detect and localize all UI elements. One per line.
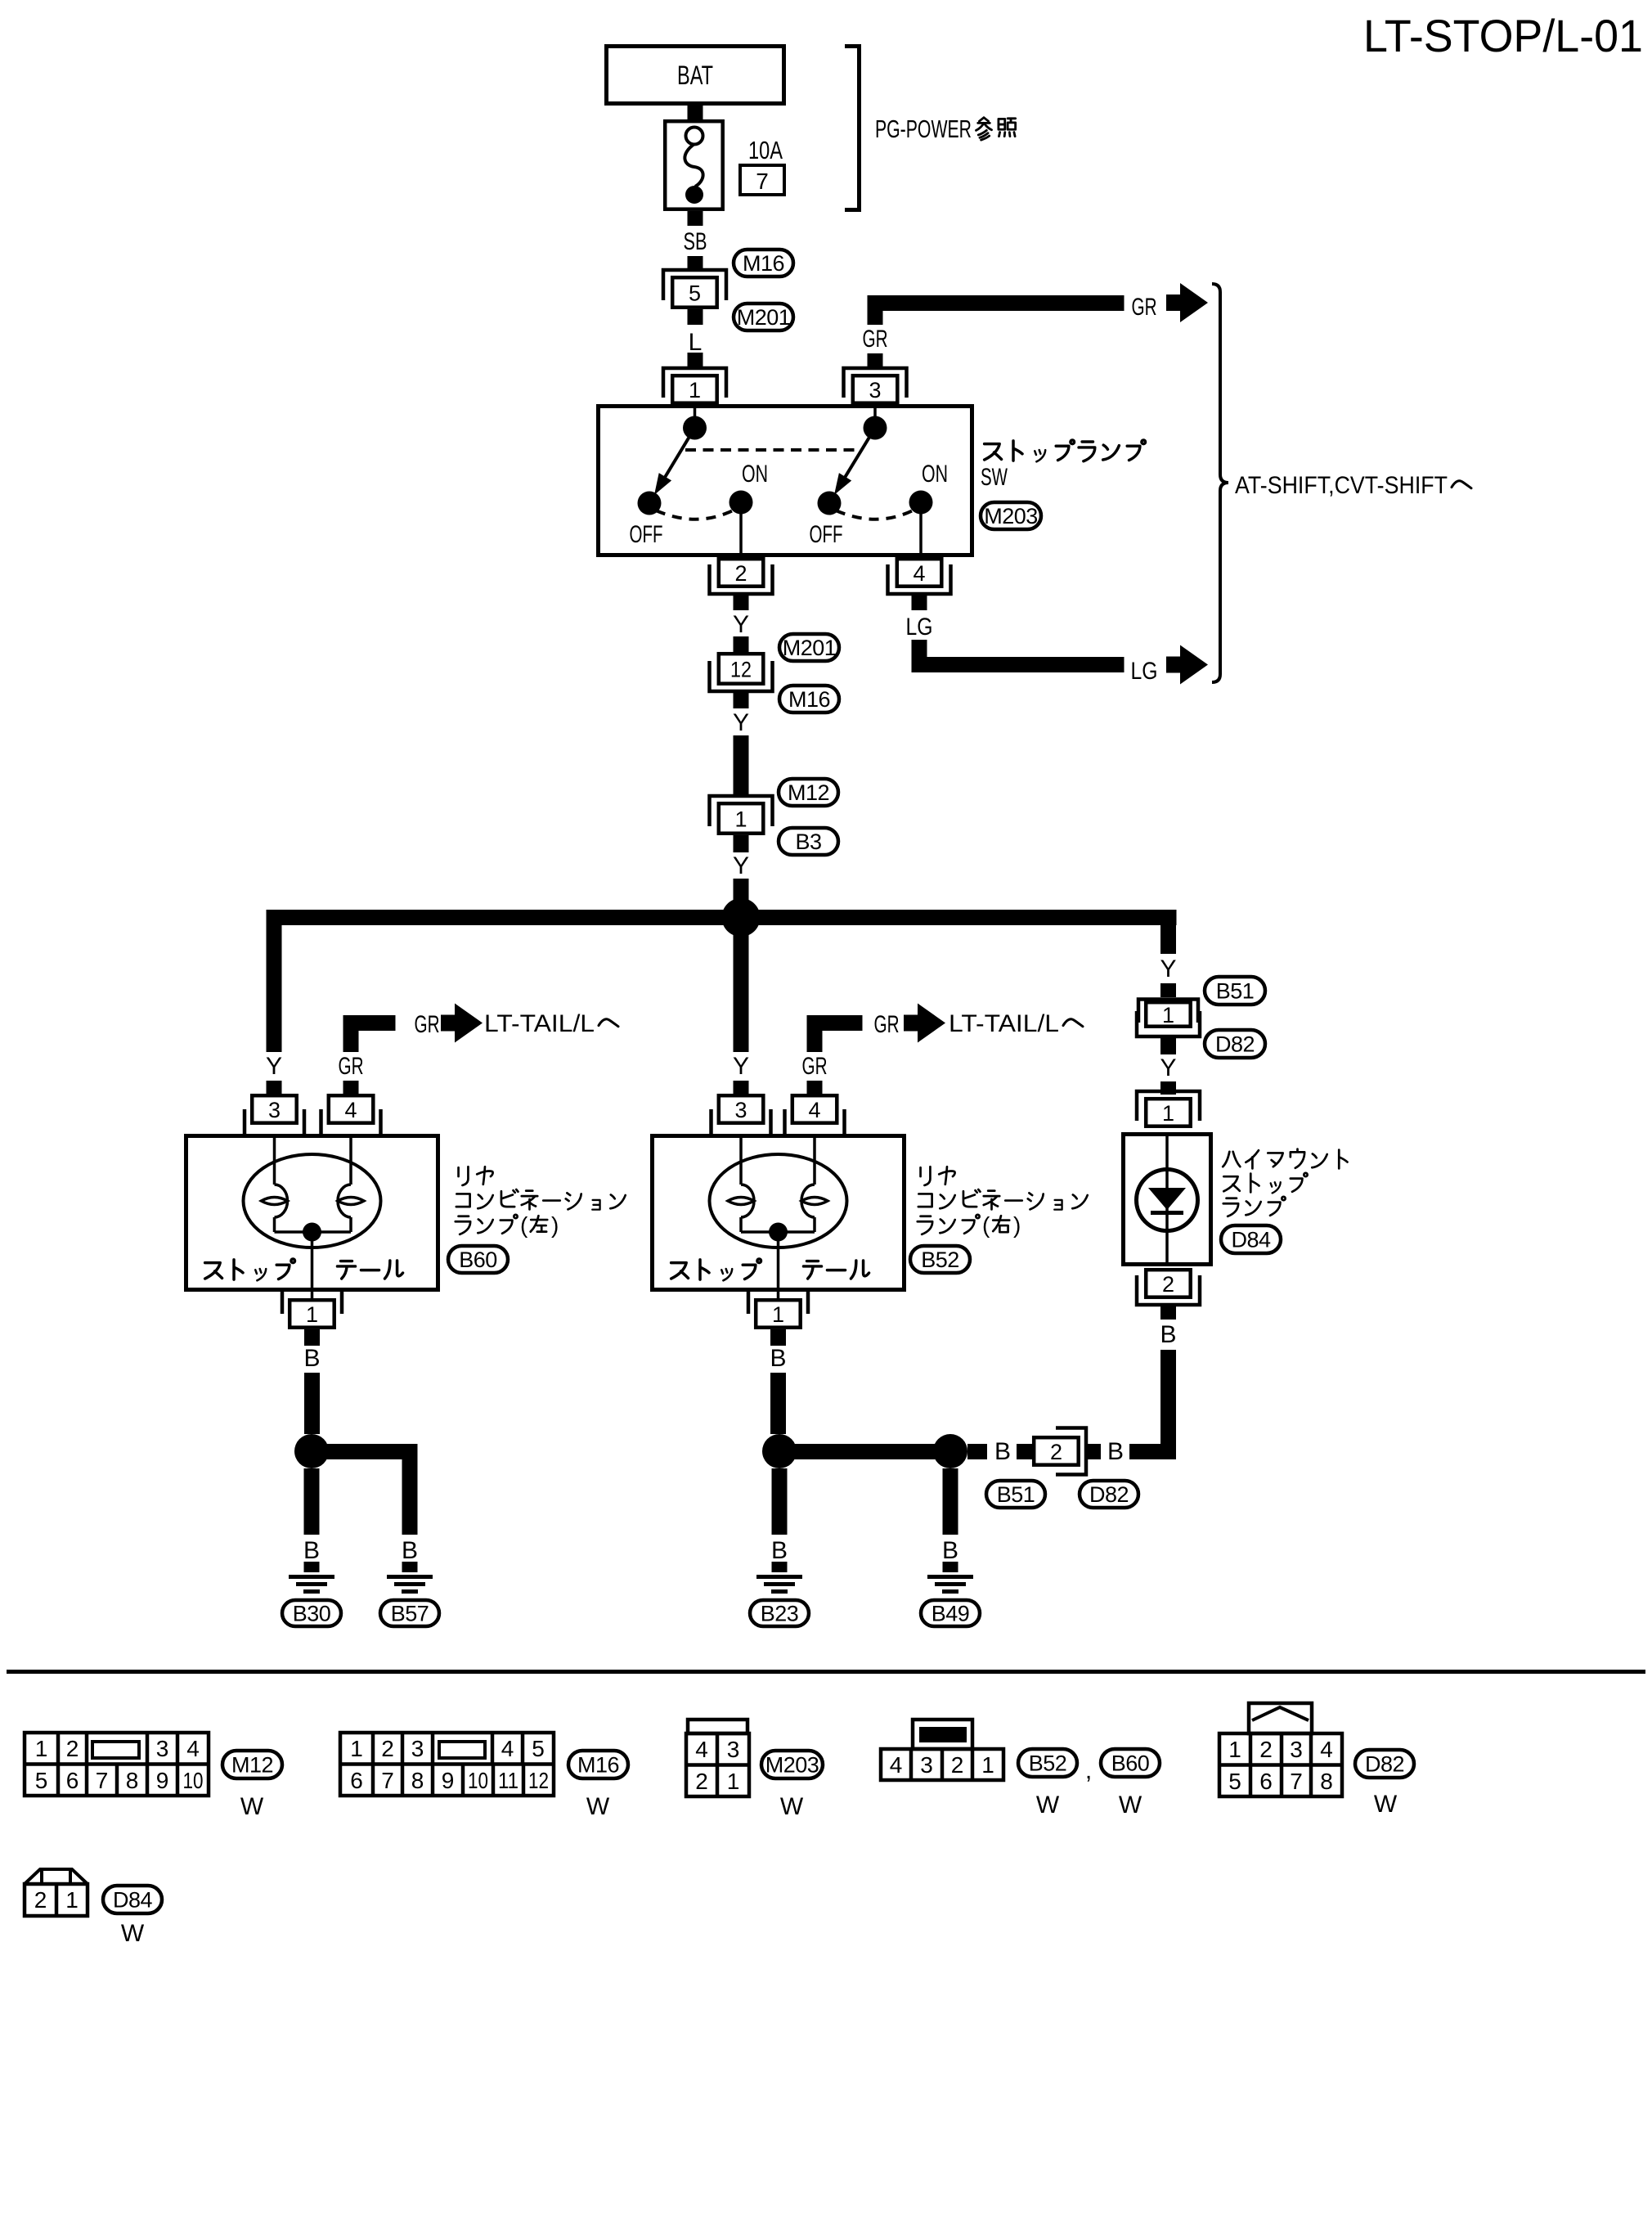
svg-text:6: 6	[1259, 1769, 1273, 1794]
svg-text:12: 12	[528, 1768, 549, 1793]
svg-text:M201: M201	[737, 305, 791, 330]
svg-text:B: B	[770, 1345, 786, 1372]
svg-text:SW: SW	[981, 464, 1008, 491]
svg-text:7: 7	[381, 1768, 394, 1793]
svg-text:LG: LG	[1131, 658, 1158, 685]
svg-text:B3: B3	[795, 830, 821, 854]
svg-text:Y: Y	[733, 1053, 749, 1080]
svg-text:B: B	[1160, 1321, 1176, 1348]
svg-text:9: 9	[442, 1768, 455, 1793]
svg-text:B: B	[771, 1537, 788, 1564]
svg-text:B30: B30	[293, 1602, 331, 1626]
svg-text:B: B	[1107, 1438, 1124, 1465]
svg-text:7: 7	[756, 169, 769, 194]
svg-text:1: 1	[1162, 1003, 1174, 1027]
svg-text:Y: Y	[733, 611, 749, 638]
svg-text:Y: Y	[266, 1053, 282, 1080]
svg-text:1: 1	[35, 1736, 48, 1761]
svg-text:OFF: OFF	[630, 521, 663, 548]
svg-text:2: 2	[34, 1887, 47, 1913]
svg-text:LT-TAIL/L: LT-TAIL/L	[949, 1010, 1059, 1037]
svg-text:OFF: OFF	[810, 521, 843, 548]
svg-text:7: 7	[1290, 1769, 1303, 1794]
svg-text:B: B	[402, 1537, 418, 1564]
svg-text:2: 2	[734, 561, 747, 586]
svg-text:3: 3	[156, 1736, 169, 1761]
svg-text:1: 1	[1162, 1101, 1174, 1126]
svg-text:): )	[551, 1212, 559, 1238]
svg-text:5: 5	[1228, 1769, 1241, 1794]
svg-text:2: 2	[951, 1752, 964, 1778]
svg-text:9: 9	[156, 1768, 169, 1793]
svg-text:PG-POWER: PG-POWER	[875, 115, 972, 143]
svg-text:1: 1	[689, 378, 701, 402]
svg-text:4: 4	[501, 1736, 514, 1761]
svg-text:GR: GR	[874, 1011, 900, 1038]
svg-text:ON: ON	[922, 461, 948, 488]
svg-text:3: 3	[734, 1098, 747, 1122]
svg-text:1: 1	[734, 807, 747, 832]
svg-text:M203: M203	[984, 504, 1038, 528]
svg-text:1: 1	[350, 1736, 363, 1761]
svg-text:AT-SHIFT,CVT-SHIFT: AT-SHIFT,CVT-SHIFT	[1235, 472, 1448, 499]
svg-text:1: 1	[727, 1769, 740, 1794]
svg-text:B: B	[994, 1438, 1011, 1465]
svg-text:(: (	[520, 1212, 528, 1238]
svg-text:,: ,	[1085, 1757, 1092, 1784]
svg-text:10: 10	[183, 1768, 204, 1793]
svg-text:B60: B60	[459, 1248, 497, 1272]
svg-text:B: B	[303, 1537, 320, 1564]
svg-text:B23: B23	[761, 1602, 799, 1626]
svg-text:3: 3	[869, 378, 881, 402]
svg-text:3: 3	[727, 1737, 740, 1762]
svg-text:Y: Y	[1160, 1054, 1176, 1081]
svg-text:B52: B52	[1029, 1751, 1067, 1776]
svg-text:3: 3	[411, 1736, 424, 1761]
svg-text:D84: D84	[1231, 1228, 1271, 1252]
svg-text:M12: M12	[788, 780, 829, 805]
svg-text:8: 8	[1320, 1769, 1333, 1794]
svg-text:M201: M201	[783, 636, 837, 660]
svg-text:D82: D82	[1215, 1032, 1255, 1057]
svg-text:BAT: BAT	[677, 61, 713, 90]
svg-text:GR: GR	[1132, 294, 1157, 321]
svg-text:1: 1	[772, 1302, 784, 1327]
svg-text:W: W	[1119, 1792, 1142, 1819]
svg-text:D82: D82	[1089, 1482, 1129, 1507]
svg-text:M16: M16	[788, 687, 830, 712]
svg-text:8: 8	[126, 1768, 139, 1793]
svg-text:2: 2	[1162, 1272, 1174, 1297]
svg-text:Y: Y	[1160, 955, 1176, 982]
svg-text:D82: D82	[1365, 1752, 1404, 1777]
svg-text:M16: M16	[743, 251, 784, 276]
svg-text:LT-STOP/L-01: LT-STOP/L-01	[1363, 10, 1643, 61]
svg-text:): )	[1013, 1212, 1021, 1238]
svg-text:2: 2	[66, 1736, 79, 1761]
svg-text:SB: SB	[684, 228, 707, 255]
svg-text:GR: GR	[339, 1053, 364, 1080]
svg-text:Y: Y	[733, 709, 749, 736]
svg-text:1: 1	[981, 1752, 994, 1778]
svg-text:B: B	[942, 1537, 958, 1564]
svg-text:B57: B57	[391, 1602, 429, 1626]
svg-text:2: 2	[695, 1769, 708, 1794]
svg-text:5: 5	[689, 281, 701, 306]
svg-text:W: W	[780, 1793, 804, 1820]
svg-text:5: 5	[35, 1768, 48, 1793]
svg-text:D84: D84	[113, 1888, 153, 1913]
svg-text:12: 12	[730, 658, 752, 682]
svg-text:1: 1	[306, 1302, 318, 1327]
svg-text:4: 4	[1320, 1737, 1333, 1762]
svg-text:B52: B52	[921, 1248, 959, 1272]
svg-text:4: 4	[186, 1736, 200, 1761]
svg-text:L: L	[689, 329, 703, 356]
svg-text:6: 6	[66, 1768, 79, 1793]
svg-text:1: 1	[1228, 1737, 1241, 1762]
svg-text:LG: LG	[906, 614, 933, 641]
svg-text:B60: B60	[1111, 1751, 1150, 1776]
svg-text:M203: M203	[765, 1753, 819, 1778]
svg-text:4: 4	[344, 1098, 357, 1122]
svg-text:Y: Y	[733, 852, 749, 879]
svg-text:4: 4	[695, 1737, 708, 1762]
svg-text:10: 10	[468, 1768, 488, 1793]
svg-text:GR: GR	[802, 1053, 828, 1080]
svg-text:2: 2	[381, 1736, 394, 1761]
svg-text:10A: 10A	[748, 136, 783, 164]
svg-text:W: W	[586, 1793, 610, 1820]
svg-text:8: 8	[411, 1768, 424, 1793]
svg-text:W: W	[121, 1920, 145, 1947]
svg-text:GR: GR	[863, 326, 888, 353]
svg-text:ON: ON	[742, 461, 768, 488]
svg-text:(: (	[982, 1212, 990, 1238]
svg-text:7: 7	[96, 1768, 109, 1793]
svg-text:GR: GR	[415, 1011, 440, 1038]
svg-text:3: 3	[1290, 1737, 1303, 1762]
svg-text:M16: M16	[577, 1753, 619, 1778]
svg-text:4: 4	[913, 561, 925, 586]
svg-text:M12: M12	[231, 1753, 273, 1778]
svg-text:W: W	[1036, 1792, 1060, 1819]
svg-text:2: 2	[1259, 1737, 1273, 1762]
svg-text:5: 5	[532, 1736, 545, 1761]
svg-text:B51: B51	[997, 1482, 1035, 1507]
svg-text:W: W	[1374, 1791, 1398, 1818]
svg-text:B: B	[303, 1345, 320, 1372]
svg-text:LT-TAIL/L: LT-TAIL/L	[484, 1010, 595, 1037]
svg-text:1: 1	[65, 1887, 79, 1913]
svg-text:11: 11	[498, 1768, 518, 1793]
svg-text:B51: B51	[1216, 979, 1255, 1004]
svg-text:2: 2	[1050, 1440, 1062, 1464]
svg-text:3: 3	[920, 1752, 933, 1778]
svg-text:B49: B49	[931, 1602, 970, 1626]
svg-text:6: 6	[350, 1768, 363, 1793]
svg-text:3: 3	[268, 1098, 281, 1122]
svg-text:4: 4	[808, 1098, 820, 1122]
svg-text:W: W	[240, 1793, 264, 1820]
svg-text:4: 4	[890, 1752, 903, 1778]
